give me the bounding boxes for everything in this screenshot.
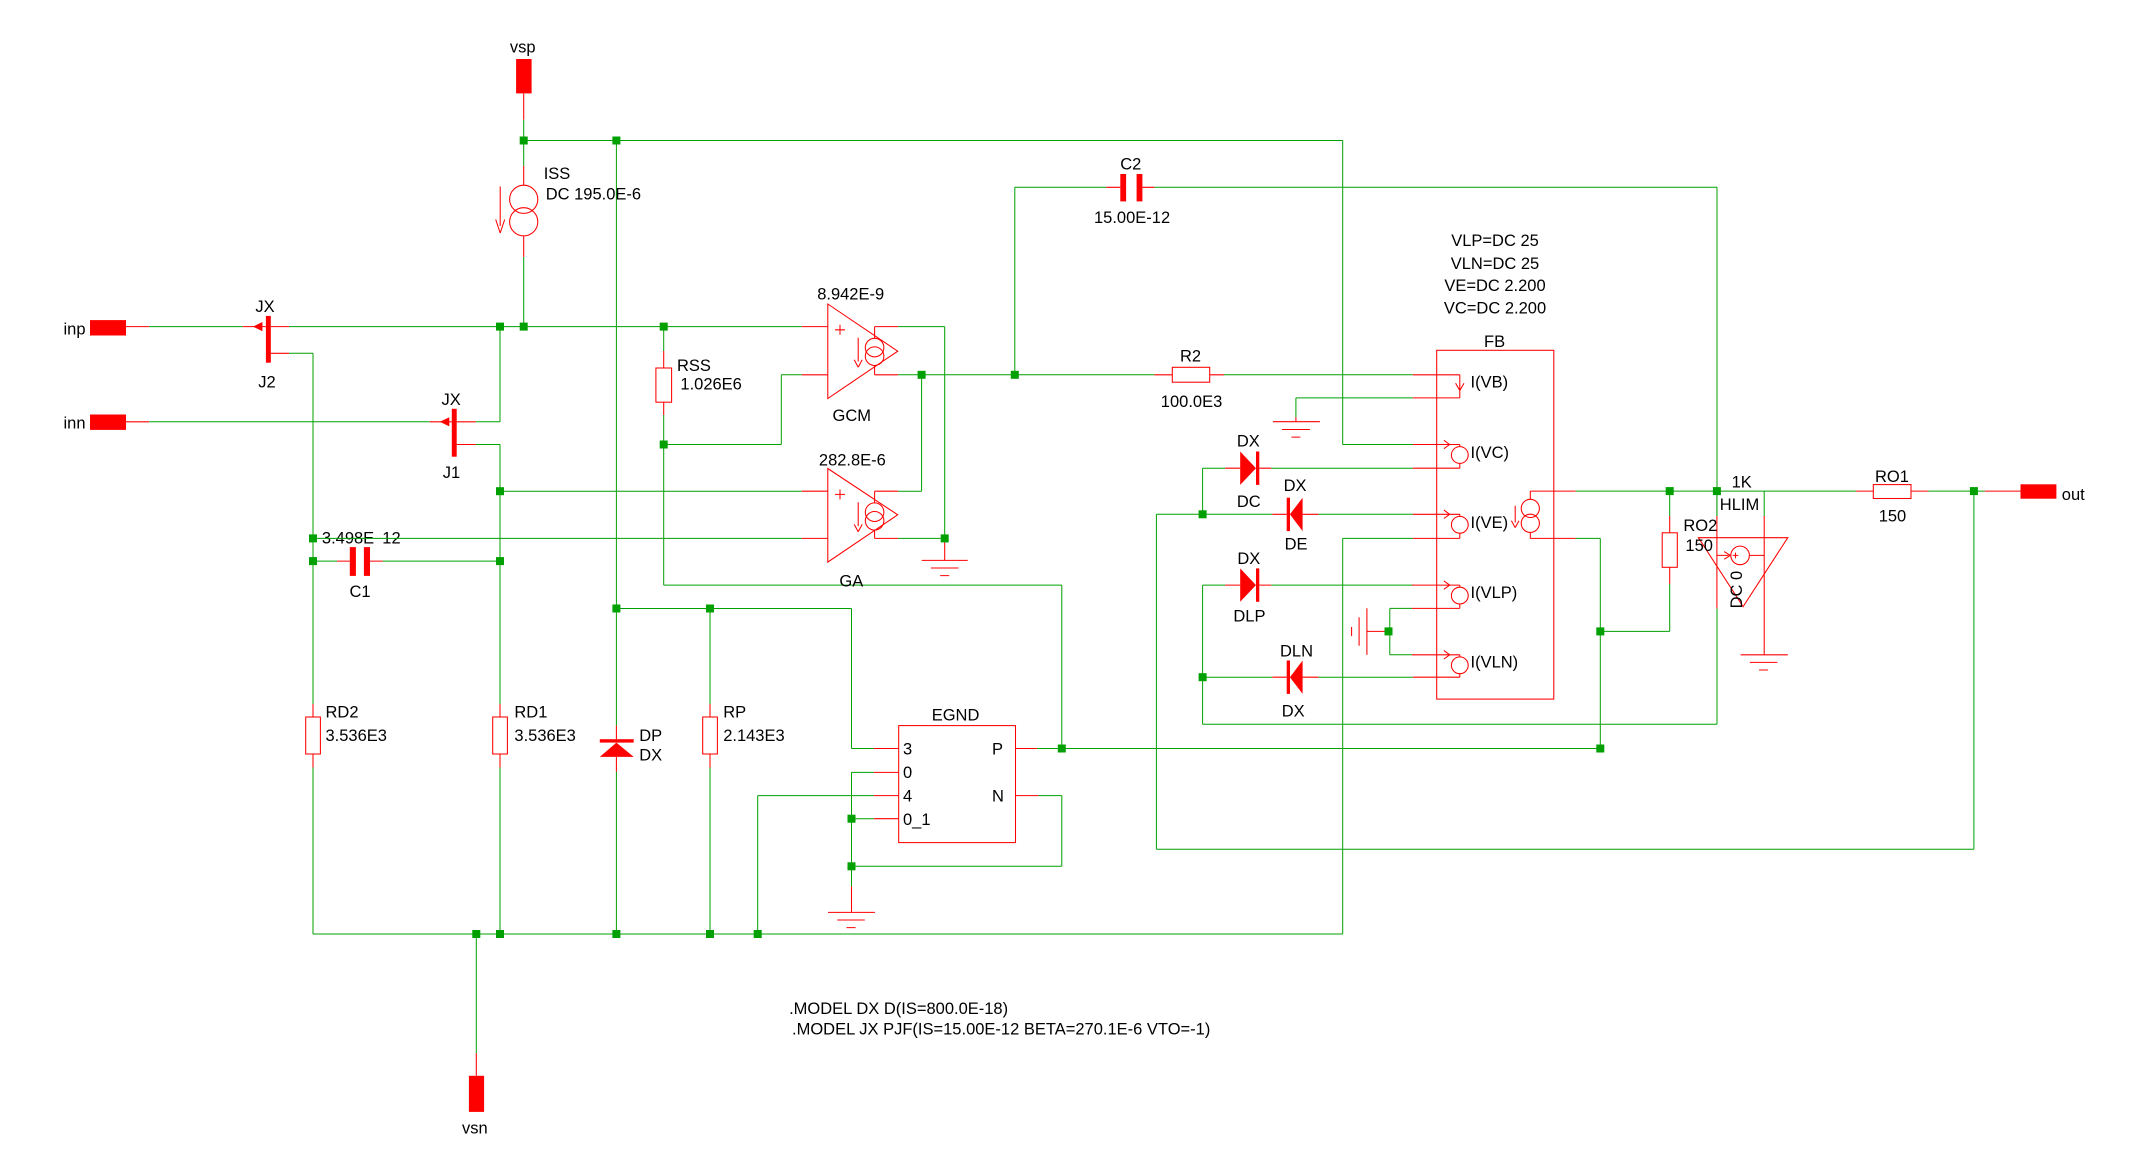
svg-text:RP: RP (723, 704, 746, 722)
wire EGND pin3 stub (852, 748, 874, 750)
voltage source DC 0 (1698, 516, 1787, 655)
wire EGND ground stem (851, 866, 853, 886)
diode DLN (1272, 661, 1318, 694)
wire inp port to J2 gate (149, 326, 243, 328)
junction GA minus J2 source (309, 534, 317, 542)
junction vsp rail (520, 137, 528, 145)
wire RSS to GCM minus jog (664, 375, 802, 445)
svg-text:4: 4 (903, 788, 912, 806)
port out (1985, 484, 2057, 498)
wire I(VE) return to bottom rail (1343, 538, 1413, 934)
transistor J2 (243, 316, 289, 363)
junction DE row column (1199, 510, 1207, 518)
svg-text:JX: JX (255, 298, 274, 316)
junction GCM output C2 branch (1011, 371, 1019, 379)
svg-text:J1: J1 (443, 464, 460, 482)
junction out rail C2 DC0 (1713, 487, 1721, 495)
wire I(VLP) return loop to VLN ground (1390, 608, 1412, 654)
svg-text:3.536E3: 3.536E3 (326, 727, 387, 745)
svg-text:J2: J2 (258, 374, 275, 392)
port vsp (516, 59, 532, 120)
current source HLIM (1511, 491, 1575, 538)
svg-text:N: N (992, 788, 1004, 806)
port inp (90, 320, 149, 335)
junction vsp rail DP branch (612, 137, 620, 145)
resistor RO1 (1856, 485, 1928, 499)
svg-text:VE=DC 2.200: VE=DC 2.200 (1444, 277, 1545, 295)
wire J1 source down (476, 445, 500, 935)
wire RP stems (709, 609, 711, 935)
wire EGND N loop (852, 796, 1062, 867)
resistor RO2 (1662, 516, 1677, 584)
svg-text:DLP: DLP (1233, 608, 1265, 626)
svg-text:150: 150 (1879, 507, 1907, 525)
wire I(VB) return to ground (1296, 398, 1413, 417)
svg-text:GA: GA (839, 572, 863, 590)
svg-text:DC 195.0E-6: DC 195.0E-6 (546, 186, 641, 204)
wire vsp top rail (524, 120, 1413, 445)
svg-text:I(VLP): I(VLP) (1471, 584, 1518, 602)
current sensor I(VC) (1413, 440, 1468, 468)
junction C1 right (496, 557, 504, 565)
svg-text:3: 3 (903, 741, 912, 759)
junction rail EGND pin4 (754, 930, 762, 938)
svg-text:DC 0: DC 0 (1728, 571, 1746, 609)
wire GCM output down to GA top rail (898, 375, 922, 491)
wire inn port to J1 gate (149, 421, 430, 423)
junction EGND pin0_1 (848, 815, 856, 823)
junction inp RSS (660, 323, 668, 331)
wire RSS stem top (663, 327, 665, 351)
svg-text:1K: 1K (1732, 473, 1752, 491)
svg-text:vsn: vsn (462, 1120, 488, 1138)
svg-text:EGND: EGND (932, 707, 980, 725)
wire C1 row (313, 560, 500, 562)
svg-text:VLP=DC 25: VLP=DC 25 (1451, 232, 1539, 250)
svg-text:GCM: GCM (833, 407, 872, 425)
wire DLP column (1203, 585, 1226, 724)
current source ISS (496, 166, 538, 257)
svg-text:C2: C2 (1120, 156, 1141, 174)
wire C2 left leg (1015, 187, 1107, 374)
junction RO2 top (1666, 487, 1674, 495)
svg-text:I(VC): I(VC) (1471, 444, 1510, 462)
wire R2 row right to FB (1224, 374, 1413, 376)
block FB (1437, 350, 1554, 699)
wire DP RP top row (616, 609, 851, 749)
wire HLIM top rail to out (1576, 490, 1856, 492)
junction inp ISS (520, 323, 528, 331)
svg-text:.MODEL DX D(IS=800.0E-18): .MODEL DX D(IS=800.0E-18) (789, 1000, 1008, 1018)
svg-text:P: P (992, 741, 1003, 759)
wire RO2 stems (1669, 491, 1671, 631)
junction DP top (612, 605, 620, 613)
svg-text:RO1: RO1 (1875, 468, 1909, 486)
svg-text:inp: inp (64, 320, 86, 338)
wire GA minus row (313, 537, 802, 539)
junction VLP ground (1385, 627, 1393, 635)
wire GCM top rail to GA ground junction (898, 327, 945, 539)
svg-text:DLN: DLN (1280, 643, 1313, 661)
svg-text:1.026E6: 1.026E6 (680, 376, 741, 394)
wire RO1 to out port (1928, 490, 1985, 492)
ground at I(VB) return (1273, 417, 1320, 437)
svg-text:0_1: 0_1 (903, 811, 931, 829)
junction inp J1 drain (496, 323, 504, 331)
svg-text:C1: C1 (350, 583, 371, 601)
transistor J1 (430, 409, 476, 457)
wire vsp to DP anode (615, 141, 617, 609)
svg-text:.MODEL JX PJF(IS=15.00E-12 BET: .MODEL JX PJF(IS=15.00E-12 BETA=270.1E-6… (792, 1020, 1210, 1038)
svg-text:RSS: RSS (677, 357, 711, 375)
junction HLIM RO2 bottom (1596, 627, 1604, 635)
wire EGND P row (1037, 748, 1600, 750)
svg-text:FB: FB (1484, 333, 1505, 351)
svg-text:HLIM: HLIM (1720, 496, 1759, 514)
port vsn (469, 1053, 484, 1112)
wire DP stems (615, 609, 617, 935)
wire GA output to EGND P (664, 445, 1062, 749)
resistor RD1 (493, 704, 508, 768)
svg-text:DX: DX (1237, 433, 1260, 451)
wire GA bottom rail to ground junction (898, 537, 945, 539)
svg-text:8.942E-9: 8.942E-9 (817, 286, 884, 304)
wire RD2 stems (312, 561, 314, 934)
ground below DC0 (1741, 655, 1788, 670)
wire R2 row left (1015, 374, 1155, 376)
wire DC0 right pin top (1763, 491, 1765, 516)
wire RSS stem bottom (663, 415, 665, 445)
svg-text:DE: DE (1285, 536, 1308, 554)
wire DC0 pin through to DLP (1203, 608, 1717, 724)
wire C2 right to junction (1154, 187, 1717, 516)
ground rotated at I(VLP) I(VLN) (1352, 608, 1385, 655)
svg-text:DX: DX (1282, 703, 1305, 721)
ground below EGND (828, 886, 875, 927)
svg-text:3.536E3: 3.536E3 (514, 727, 575, 745)
svg-text:vsp: vsp (510, 38, 536, 56)
diode DLP (1225, 568, 1271, 601)
svg-text:DC: DC (1237, 493, 1261, 511)
wire DLN row (1203, 676, 1413, 678)
port inn (90, 415, 149, 430)
junction rail vsn (472, 930, 480, 938)
junction C1 left (309, 557, 317, 565)
junction out port (1970, 487, 1978, 495)
junction GA plus RD1 (496, 487, 504, 495)
capacitor C1 (337, 547, 383, 576)
junction rail RD1 (496, 930, 504, 938)
junction GCM output GA branch (918, 371, 926, 379)
wire DC diode row (1203, 468, 1413, 514)
svg-text:15.00E-12: 15.00E-12 (1094, 209, 1170, 227)
svg-text:I(VE): I(VE) (1471, 514, 1509, 532)
junction rail DP (612, 930, 620, 938)
wire bottom rail (313, 933, 1343, 935)
diode DP (600, 726, 634, 772)
diode DC (1225, 452, 1271, 485)
capacitor C2 (1106, 174, 1154, 201)
ground below GA output (922, 538, 968, 575)
svg-text:JX: JX (442, 391, 461, 409)
svg-text:I(VB): I(VB) (1471, 374, 1509, 392)
junction EGND P (1058, 745, 1066, 753)
svg-text:VC=DC 2.200: VC=DC 2.200 (1444, 300, 1546, 318)
resistor R2 (1154, 367, 1224, 382)
current sensor I(VE) (1413, 510, 1468, 538)
junction RP top (706, 605, 714, 613)
resistor RP (703, 704, 718, 768)
junction rail RP (706, 930, 714, 938)
svg-text:RD2: RD2 (326, 704, 359, 722)
svg-text:DX: DX (639, 747, 662, 765)
current sensor I(VLP) (1412, 581, 1468, 609)
junction P row corner (1596, 745, 1604, 753)
wire ISS bottom to inp rail (523, 141, 525, 327)
svg-text:DX: DX (1284, 477, 1307, 495)
svg-text:I(VLN): I(VLN) (1471, 654, 1519, 672)
svg-text:RO2: RO2 (1683, 517, 1717, 535)
svg-text:RD1: RD1 (514, 704, 547, 722)
wire GCM output rail (898, 374, 1015, 376)
svg-text:out: out (2062, 486, 2085, 504)
svg-text:100.0E3: 100.0E3 (1161, 393, 1222, 411)
wire J1 drain up to inp rail (476, 327, 500, 422)
svg-text:ISS: ISS (544, 165, 571, 183)
wire J2 source down (289, 353, 313, 934)
junction DLN row column (1199, 673, 1207, 681)
wire GA plus row (500, 490, 802, 492)
current sensor I(VB) (1413, 375, 1464, 398)
current sensor I(VLN) (1412, 651, 1468, 678)
op-amp vccs GCM (802, 304, 898, 399)
svg-text:DX: DX (1237, 550, 1260, 568)
wire DE row right (1319, 513, 1413, 515)
junction RSS bottom (660, 441, 668, 449)
wire DC0 left pin top (1716, 491, 1718, 516)
svg-text:0: 0 (903, 764, 912, 782)
op-amp vccs GA (802, 469, 898, 563)
wire RD1 stems (499, 561, 501, 934)
wire out net to DE row (1156, 491, 1974, 849)
diode DE (1272, 498, 1318, 531)
junction GA ground (941, 534, 949, 542)
wire vsn stem (475, 934, 477, 1053)
junction EGND ground N (848, 862, 856, 870)
wire J2 drain to GCM plus (289, 326, 802, 328)
svg-text:VLN=DC 25: VLN=DC 25 (1451, 255, 1540, 273)
svg-text:150: 150 (1685, 537, 1713, 555)
resistor RD2 (306, 704, 321, 768)
resistor RSS (656, 351, 672, 415)
wire DLP row right (1271, 584, 1413, 586)
svg-text:DP: DP (639, 727, 662, 745)
wire HLIM bottom leg (1576, 538, 1670, 748)
svg-text:inn: inn (64, 414, 86, 432)
block EGND (874, 726, 1039, 843)
svg-text:R2: R2 (1180, 348, 1201, 366)
wire EGND pin0 down (852, 772, 874, 866)
wire EGND pin0_1 stub (852, 818, 874, 820)
svg-text:2.143E3: 2.143E3 (723, 727, 784, 745)
wire EGND pin4 to rail (758, 796, 874, 934)
svg-text:282.8E-6: 282.8E-6 (819, 451, 886, 469)
